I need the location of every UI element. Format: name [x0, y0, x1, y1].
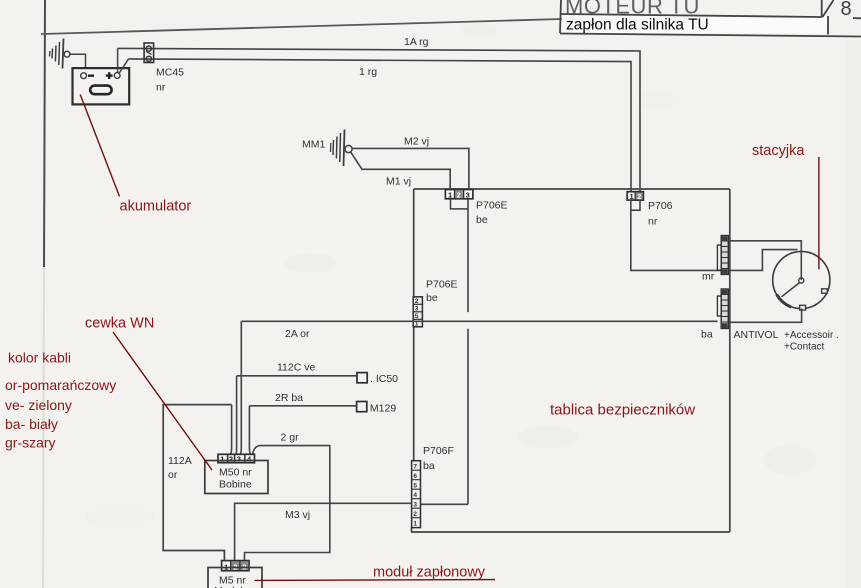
terminal square M129: [357, 402, 367, 412]
svg-text:1: 1: [220, 455, 224, 464]
wire P706E column (be): [467, 199, 469, 312]
svg-text:2: 2: [229, 455, 233, 464]
ignition switch (stacyjka) circle: [773, 251, 830, 308]
wire M1 vj: [351, 152, 450, 189]
wire M3 vj (module pin 2 to fuse box P706F): [235, 503, 412, 560]
page border left: [44, 0, 45, 268]
wire mr to switch top: [728, 241, 801, 252]
wire 112A or (left rectangle path to module): [163, 405, 231, 561]
svg-text:7: 7: [413, 464, 417, 471]
svg-text:5: 5: [413, 483, 417, 490]
svg-text:+Accessoir .: +Accessoir .: [784, 330, 839, 341]
module M5 box (modul zaplonowy): [208, 568, 262, 588]
wire 112C ve: [235, 376, 237, 455]
svg-text:mr: mr: [702, 271, 715, 283]
wire battery plus up to 1A rg: [117, 48, 119, 72]
svg-text:2: 2: [413, 511, 417, 518]
svg-text:M1 vj: M1 vj: [386, 176, 411, 188]
svg-text:1: 1: [630, 192, 634, 201]
svg-text:+Contact: +Contact: [784, 342, 825, 353]
svg-text:cewka WN: cewka WN: [85, 316, 154, 332]
svg-text:MM1: MM1: [302, 139, 325, 151]
svg-text:M2 vj: M2 vj: [404, 136, 429, 148]
svg-text:P706E: P706E: [426, 279, 458, 291]
wire P706 down through mr connector to switch (stepped): [631, 200, 798, 270]
wire 2A or / ba (long horizontal to ignition switch): [241, 320, 717, 322]
switch position mark right: [822, 289, 828, 293]
wire 1 rg: [128, 59, 631, 192]
connector P706 body bracket below pins: [631, 200, 640, 210]
svg-text:nr: nr: [648, 216, 658, 228]
svg-text:3: 3: [413, 502, 417, 509]
wire 2R ba: [249, 406, 250, 455]
svg-text:P706: P706: [648, 200, 673, 212]
svg-text:nr: nr: [156, 82, 166, 94]
svg-text:stacyjka: stacyjka: [752, 143, 805, 159]
svg-text:6: 6: [413, 473, 417, 480]
svg-text:ba: ba: [423, 460, 435, 472]
svg-text:M3 vj: M3 vj: [285, 509, 310, 521]
wire to P706F strip right side: [421, 503, 469, 505]
svg-text:3: 3: [415, 306, 419, 313]
svg-text:2R ba: 2R ba: [275, 392, 303, 404]
red leader line stacyjka: [818, 157, 820, 269]
connector P706E pins 1 2 3: [445, 190, 473, 200]
wire switch bottom to ba: [730, 309, 802, 323]
ground symbol MM1: [331, 130, 345, 167]
svg-text:4: 4: [413, 492, 417, 499]
svg-text:5: 5: [415, 313, 419, 320]
terminal square IC50: [357, 373, 367, 383]
svg-text:ve- zielony: ve- zielony: [5, 397, 72, 413]
svg-text:2: 2: [457, 191, 461, 200]
red leader line akumulator: [80, 95, 119, 197]
connector P706E body bracket below pins: [451, 199, 469, 209]
red leader line cewka WN: [113, 332, 212, 470]
fuse box (tablica bezpiecznikow) outline: [411, 189, 730, 532]
svg-text:3: 3: [237, 455, 241, 464]
svg-text:3: 3: [466, 191, 470, 200]
wire 112A rect corner down into coil pin 2: [231, 405, 232, 455]
wire 2 gr (coil pin 4 to module pin 3): [245, 446, 330, 561]
page number 8 with diagonal: [822, 0, 861, 18]
svg-text:be: be: [476, 214, 488, 226]
svg-text:moduł zapłonowy: moduł zapłonowy: [373, 565, 486, 581]
svg-text:M50 nr: M50 nr: [219, 467, 252, 479]
svg-text:M129: M129: [370, 403, 396, 415]
svg-text:kolor kabli: kolor kabli: [8, 350, 71, 366]
wire ground to battery minus: [70, 54, 86, 68]
svg-text:112C ve: 112C ve: [277, 362, 315, 374]
svg-text:1 rg: 1 rg: [359, 66, 377, 78]
svg-text:2A or: 2A or: [285, 328, 310, 340]
svg-text:2: 2: [637, 192, 641, 201]
svg-text:MC45: MC45: [156, 67, 184, 79]
connector ba strip: [717, 289, 728, 329]
subtitle box background: [562, 16, 827, 34]
svg-text:P706E: P706E: [476, 200, 508, 212]
svg-text:2 gr: 2 gr: [281, 432, 300, 444]
svg-text:gr-szary: gr-szary: [5, 435, 56, 451]
svg-text:P706F: P706F: [423, 445, 454, 457]
battery (akumulator): [73, 68, 130, 104]
svg-text:2: 2: [415, 298, 419, 305]
svg-text:. IC50: . IC50: [370, 373, 398, 385]
red leader line modul zaplonowy: [254, 579, 495, 582]
wire 2A or vertical (coil pin 3 up to long wire): [240, 321, 241, 454]
svg-text:1A rg: 1A rg: [404, 36, 429, 48]
svg-text:zapłon dla silnika TU: zapłon dla silnika TU: [566, 17, 709, 34]
svg-text:be: be: [426, 292, 438, 304]
ground symbol (battery ground): [50, 39, 64, 69]
svg-text:tablica bezpieczników: tablica bezpieczników: [550, 402, 695, 419]
svg-text:ba- biały: ba- biały: [5, 416, 58, 432]
svg-text:ANTIVOL: ANTIVOL: [734, 329, 779, 341]
svg-text:1: 1: [448, 191, 452, 200]
svg-text:or: or: [168, 469, 178, 481]
connector MC45: [144, 43, 154, 63]
wire 1A rg: [118, 48, 640, 191]
switch lever to lower-left: [782, 283, 800, 297]
wire M2 vj: [352, 148, 469, 189]
svg-text:ba: ba: [701, 329, 713, 341]
title block frame: [560, 0, 861, 37]
connector P706F strip: [412, 461, 421, 528]
wire battery plus diagonal to 1 rg: [119, 59, 128, 73]
coil M50 box (cewka WN): [205, 461, 268, 494]
svg-text:1: 1: [413, 521, 417, 528]
switch key shaft: [800, 251, 802, 280]
svg-text:Bobine: Bobine: [219, 479, 252, 491]
module M5 connector pins 1 2 3: [222, 561, 249, 572]
switch position mark bottom: [800, 305, 806, 310]
page border top: [42, 19, 561, 34]
svg-text:112A: 112A: [168, 455, 192, 467]
switch sector arc bottom-left: [777, 295, 792, 308]
connector P706 pins 1 2: [627, 192, 643, 201]
connector P706E be strip (on fuse box left edge): [413, 297, 422, 328]
svg-text:8: 8: [841, 0, 852, 20]
connector mr strip: [717, 236, 728, 275]
svg-text:akumulator: akumulator: [120, 199, 192, 215]
coil connector pins 1 2 3 4: [218, 454, 255, 463]
svg-text:or-pomarańczowy: or-pomarańczowy: [5, 377, 116, 393]
